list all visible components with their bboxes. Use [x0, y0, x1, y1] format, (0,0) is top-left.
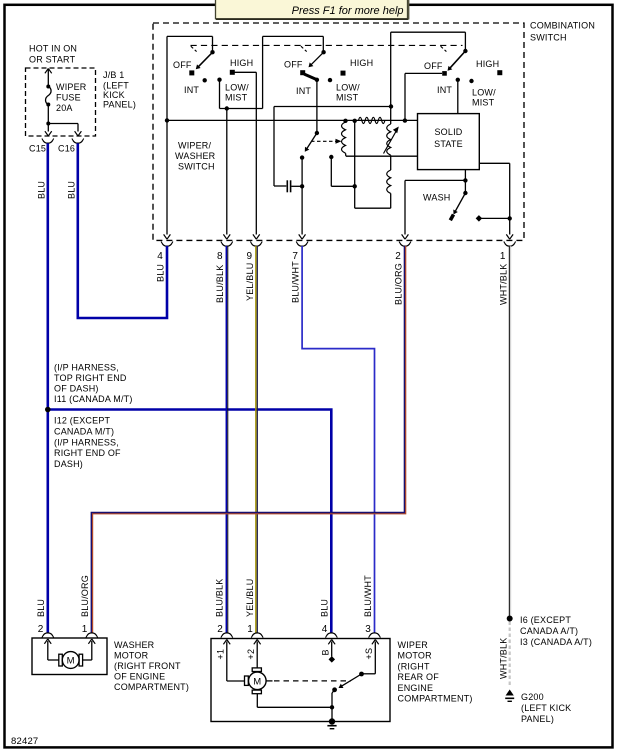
svg-text:+S: +S	[364, 648, 374, 660]
svg-text:WHT/BLK: WHT/BLK	[498, 638, 508, 679]
svg-text:4: 4	[157, 251, 163, 262]
svg-text:2: 2	[395, 251, 401, 262]
svg-text:WASHER: WASHER	[114, 640, 155, 650]
svg-text:LOW/: LOW/	[225, 83, 249, 93]
svg-text:OF DASH): OF DASH)	[54, 383, 99, 393]
svg-text:HIGH: HIGH	[230, 58, 253, 68]
svg-text:WIPER: WIPER	[398, 640, 429, 650]
svg-text:COMBINATION: COMBINATION	[530, 21, 595, 31]
svg-text:+1: +1	[216, 649, 226, 660]
svg-text:I12 (EXCEPT: I12 (EXCEPT	[54, 416, 111, 426]
svg-text:WASHER: WASHER	[175, 151, 216, 161]
svg-text:CANADA A/T): CANADA A/T)	[520, 626, 578, 636]
svg-text:(LEFT KICK: (LEFT KICK	[521, 703, 571, 713]
svg-text:I3 (CANADA A/T): I3 (CANADA A/T)	[520, 637, 592, 647]
svg-text:(RIGHT: (RIGHT	[398, 661, 430, 671]
svg-text:BLU/ORG: BLU/ORG	[80, 575, 90, 617]
svg-text:SWITCH: SWITCH	[178, 162, 215, 172]
svg-text:MIST: MIST	[336, 93, 359, 103]
svg-text:INT: INT	[437, 85, 452, 95]
svg-text:M: M	[67, 656, 75, 667]
svg-text:ENGINE: ENGINE	[398, 683, 434, 693]
svg-text:LOW/: LOW/	[472, 88, 496, 98]
svg-text:WIPER: WIPER	[56, 82, 87, 92]
svg-text:FUSE: FUSE	[56, 93, 81, 103]
svg-text:OR START: OR START	[29, 55, 76, 65]
svg-text:BLU/BLK: BLU/BLK	[215, 579, 225, 617]
svg-text:I6 (EXCEPT: I6 (EXCEPT	[520, 615, 571, 625]
svg-text:BLU/BLK: BLU/BLK	[215, 265, 225, 303]
svg-text:G200: G200	[521, 692, 544, 702]
svg-text:MIST: MIST	[472, 98, 495, 108]
svg-text:Press F1 for more help: Press F1 for more help	[292, 5, 404, 17]
svg-text:1: 1	[82, 624, 88, 635]
svg-text:20A: 20A	[56, 103, 73, 113]
svg-text:BLU/ORG: BLU/ORG	[394, 263, 404, 305]
svg-text:(I/P HARNESS,: (I/P HARNESS,	[54, 362, 119, 372]
svg-text:PANEL): PANEL)	[103, 100, 136, 110]
svg-text:1: 1	[500, 251, 506, 262]
svg-text:HIGH: HIGH	[350, 58, 373, 68]
svg-text:WHT/BLK: WHT/BLK	[498, 264, 508, 305]
svg-text:OF ENGINE: OF ENGINE	[114, 672, 165, 682]
svg-text:(I/P HARNESS,: (I/P HARNESS,	[54, 437, 119, 447]
svg-text:SWITCH: SWITCH	[530, 33, 567, 43]
svg-text:BLU: BLU	[37, 181, 47, 199]
svg-text:LOW/: LOW/	[336, 83, 360, 93]
svg-text:+2: +2	[246, 649, 256, 660]
svg-text:YEL/BLU: YEL/BLU	[245, 263, 255, 301]
svg-text:BLU: BLU	[67, 181, 77, 199]
svg-text:WIPER/: WIPER/	[178, 141, 212, 151]
svg-text:REAR OF: REAR OF	[398, 672, 440, 682]
svg-text:MIST: MIST	[225, 93, 248, 103]
svg-text:KICK: KICK	[103, 90, 125, 100]
svg-text:BLU: BLU	[156, 264, 166, 282]
svg-text:DASH): DASH)	[54, 459, 83, 469]
svg-text:2: 2	[38, 624, 44, 635]
svg-text:INT: INT	[184, 85, 199, 95]
svg-text:I11 (CANADA M/T): I11 (CANADA M/T)	[54, 394, 133, 404]
svg-text:OFF: OFF	[424, 61, 443, 71]
svg-text:3: 3	[365, 624, 371, 635]
svg-text:B: B	[321, 649, 331, 655]
svg-text:MOTOR: MOTOR	[114, 651, 149, 661]
svg-text:PANEL): PANEL)	[521, 714, 554, 724]
svg-text:STATE: STATE	[434, 139, 463, 149]
svg-text:82427: 82427	[11, 736, 38, 747]
svg-text:C15: C15	[29, 144, 46, 154]
svg-text:1: 1	[247, 624, 253, 635]
svg-text:(RIGHT FRONT: (RIGHT FRONT	[114, 661, 181, 671]
svg-text:INT: INT	[296, 86, 311, 96]
svg-text:RIGHT END OF: RIGHT END OF	[54, 448, 121, 458]
svg-text:BLU/WHT: BLU/WHT	[291, 261, 301, 303]
svg-text:BLU: BLU	[320, 599, 330, 617]
svg-text:MOTOR: MOTOR	[398, 651, 433, 661]
svg-text:YEL/BLU: YEL/BLU	[245, 579, 255, 617]
svg-text:COMPARTMENT): COMPARTMENT)	[398, 694, 473, 704]
svg-text:J/B 1: J/B 1	[103, 70, 125, 80]
svg-text:2: 2	[217, 624, 223, 635]
svg-text:COMPARTMENT): COMPARTMENT)	[114, 682, 189, 692]
svg-text:4: 4	[322, 624, 328, 635]
svg-text:9: 9	[247, 251, 253, 262]
svg-text:HIGH: HIGH	[476, 59, 499, 69]
svg-text:C16: C16	[58, 144, 75, 154]
svg-text:7: 7	[292, 251, 298, 262]
svg-text:OFF: OFF	[173, 60, 192, 70]
svg-text:BLU: BLU	[36, 599, 46, 617]
svg-text:SOLID: SOLID	[434, 127, 462, 137]
svg-text:(LEFT: (LEFT	[103, 81, 129, 91]
svg-text:OFF: OFF	[284, 60, 303, 70]
svg-text:TOP RIGHT END: TOP RIGHT END	[54, 373, 127, 383]
svg-text:M: M	[253, 676, 261, 687]
svg-text:BLU/WHT: BLU/WHT	[363, 575, 373, 617]
svg-text:CANADA M/T): CANADA M/T)	[54, 426, 114, 436]
svg-text:WASH: WASH	[423, 193, 450, 203]
svg-text:8: 8	[217, 251, 223, 262]
svg-text:HOT IN ON: HOT IN ON	[29, 44, 77, 54]
